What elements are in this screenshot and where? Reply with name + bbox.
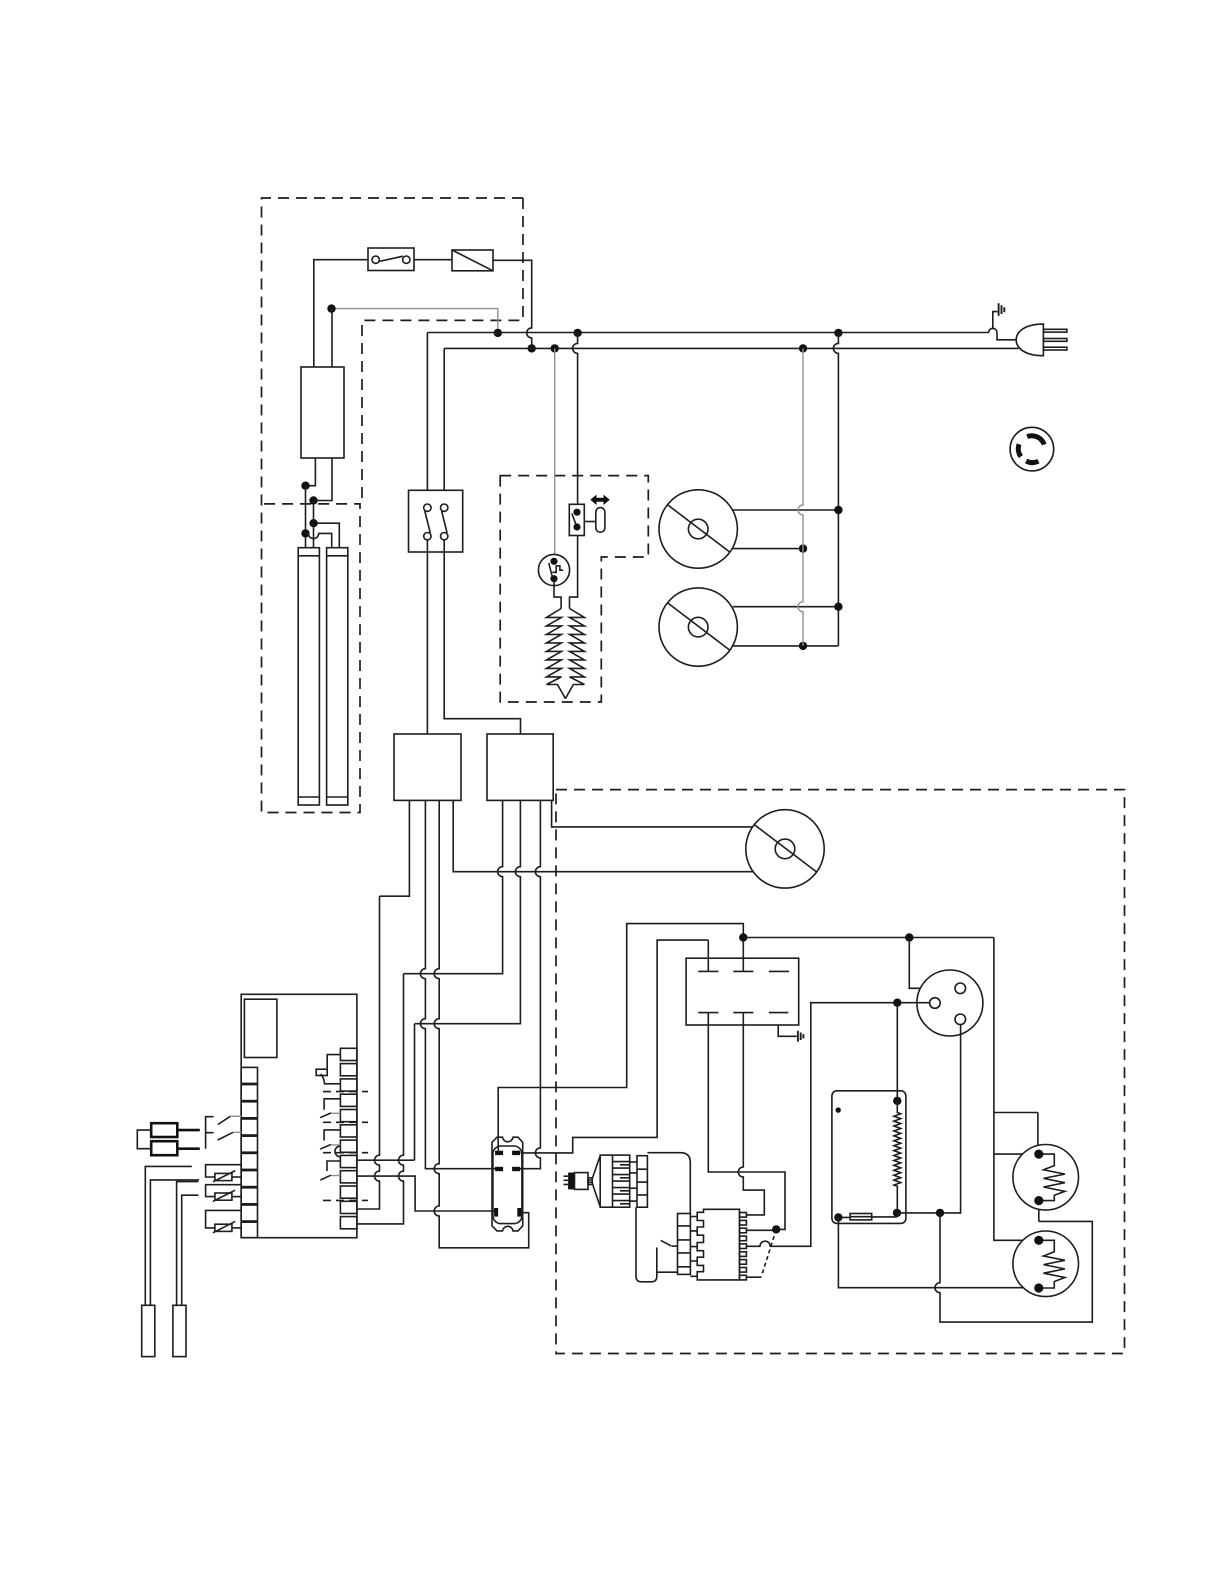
wire: stat bottom to heater right stub <box>570 536 578 609</box>
wire: timer feeder from motor lead to line L1 (gray) <box>332 309 498 333</box>
lamp 2 <box>1013 1231 1079 1297</box>
wire: terminal T2 stem up to junction <box>742 938 744 959</box>
node: coil top <box>893 1097 901 1105</box>
connector pin r1-left <box>495 1151 503 1155</box>
wire: box2 lead4 down, right to fan M3 upper lead <box>552 800 753 827</box>
dashed enclosure: machine compartment (lower right) <box>556 790 1125 1354</box>
wire: terminal T1 stem up <box>707 940 709 958</box>
board inner rectangle <box>244 999 277 1057</box>
wire: down to junction, then to right heater tube <box>314 501 340 548</box>
defrost control PCB <box>832 1091 906 1224</box>
fuse on PCB <box>838 1214 897 1220</box>
wire: box1 lead2 down then right to connector row2-left (V4) <box>420 800 495 1168</box>
connector pin r1-right <box>512 1151 520 1155</box>
node: coil bottom <box>893 1209 901 1217</box>
wire: strip-PTC ticks <box>690 1217 697 1277</box>
harness connector body <box>492 1137 523 1231</box>
door switch arm 1 <box>218 1116 230 1124</box>
wire: long run from cap T1 down, jogs, out to connector row1-right <box>521 940 709 1153</box>
actuator capsule beside switch <box>584 508 605 533</box>
node: compressor left pin branch <box>893 999 901 1007</box>
node: junction F1 wire / N1 <box>528 344 536 352</box>
overload 4-segment strip <box>678 1214 691 1275</box>
varistor R1 <box>206 1165 242 1182</box>
wire: plug1 lead (bold) <box>177 1129 200 1132</box>
relay contact glyph C on board <box>320 1130 340 1157</box>
plug connector 2 (bold) <box>151 1141 177 1155</box>
plug connector 1 (bold) <box>151 1123 177 1137</box>
fan motor M1 <box>659 490 737 568</box>
wire: branch down to relay coil <box>896 1003 898 1101</box>
connector pin r2-left <box>495 1167 503 1171</box>
temperature probe 2 <box>173 1305 186 1356</box>
lamp 1 <box>1013 1145 1079 1211</box>
start relay movable arm (dashed) <box>761 1229 776 1276</box>
wire: cap B1 stem down, right, down to start-relay node <box>708 1025 785 1229</box>
wire: N1 left end down to DP switch <box>443 348 445 490</box>
wire: M1 lower lead <box>733 548 803 550</box>
twist-lock receptacle symbol <box>1010 427 1054 471</box>
control board outline <box>241 994 357 1237</box>
sensor connector strip <box>637 1156 647 1208</box>
wire: F1 right, down with hop over line L1, to junction on line N1 <box>493 260 532 348</box>
wire: probe2 lead a <box>177 1182 199 1306</box>
wire: loop from cap T2 junction left-down to connector feed <box>498 924 743 1151</box>
double-pole switch <box>409 490 463 552</box>
node: N1/motor-drop junction <box>799 344 807 352</box>
wire: M2 upper lead with hop <box>733 606 839 608</box>
plug prong 1 <box>1043 329 1067 332</box>
wire: M2 lower lead <box>733 645 839 647</box>
wire: S1 to F1 <box>414 259 452 261</box>
connector pin r3-right <box>517 1208 521 1217</box>
wire: board pad row A with hops to V3 <box>358 1159 415 1161</box>
wire: box2 lead1 down, left with hops, down (V2) to board pad <box>358 800 503 1224</box>
board right pads <box>340 1048 357 1228</box>
node: PCB index dot <box>836 1107 841 1112</box>
defrost limit switch <box>569 504 584 535</box>
wire: down to left heater tube <box>305 486 307 548</box>
node: bottom loop junction <box>936 1209 944 1217</box>
wire: down to compressor top pin <box>909 938 955 989</box>
wire: timer bottom-right lead <box>314 458 333 501</box>
node: lead elbow A <box>301 482 309 490</box>
temperature sensor probe (black body with cone) <box>564 1156 601 1207</box>
PTC right pins <box>740 1213 747 1280</box>
wire: coil bottom row right, up to compressor bottom pin <box>897 1025 961 1213</box>
door switch arm 2 <box>218 1132 234 1140</box>
double arrow glyph <box>590 495 609 505</box>
dashed enclosure: defrost heater/thermostat area <box>500 476 648 702</box>
ground symbol at cap box <box>798 1031 804 1042</box>
wire: run from PTC row5 up to compressor left pin <box>747 1003 930 1247</box>
relay contact glyph B on board <box>320 1099 340 1118</box>
connector pin r2-right <box>512 1167 520 1171</box>
wire: vertical from L1 with hop over N1 down to M2 <box>833 333 838 646</box>
relay coil on PCB (tight zigzag) <box>894 1101 901 1213</box>
plug prong 2 <box>1043 339 1067 342</box>
wire: sensor ticks <box>630 1162 637 1201</box>
defrost heater element (fir-tree zigzag with arrow tip) <box>547 609 585 699</box>
wire: crossover with hop to right tube second lead <box>306 533 332 547</box>
wire: box2 lead2 down, left with hops, down (V3) to board pad row <box>415 800 521 1160</box>
wire: PCB junction down, right with hop, to lamp2 bottom <box>838 1217 1038 1287</box>
defrost heater tube 1 <box>298 548 319 805</box>
wire: sensor strip top to overload strip <box>647 1153 690 1214</box>
wire: PTC row9 to arm end <box>747 1276 762 1278</box>
wire: timer bottom-left lead <box>306 458 316 486</box>
node: junction C <box>309 519 317 527</box>
wire: lamp1 bottom lead down to loop <box>1038 1201 1040 1222</box>
defrost bimetal thermostat (circle) <box>538 554 569 585</box>
wire: bimetal feed (gray drop from N1) <box>554 348 556 561</box>
node: PCB bottom-left junction <box>834 1213 842 1221</box>
node: M2 lower lead junction <box>799 642 807 650</box>
wire: junction row to compressor area <box>743 937 994 939</box>
compressor (3-pin) <box>917 970 983 1036</box>
node: L1/defrost-stat junction <box>573 329 581 337</box>
wire: cap B2 stem down with hop, jog to PTC pin row1 <box>738 1025 764 1215</box>
node: start relay contact <box>772 1225 780 1233</box>
node: feeder junction on L1 <box>494 329 502 337</box>
wire: bimetal bottom to heater left stub <box>554 579 561 609</box>
node: junction D <box>301 529 309 537</box>
node: feeder start <box>327 304 335 312</box>
wire: line L1 (upper supply) with ground bump, jog into plug <box>427 328 1018 340</box>
wire: gray vertical from N1 to motor leads <box>798 348 803 646</box>
sensor ribbed body <box>600 1155 630 1207</box>
wire: plug2 lead (bold) <box>177 1147 200 1150</box>
wire: box1 lead3 down, around bottom, up into connector row3-right (V5) <box>434 800 529 1247</box>
wire: branch to lamp1 top <box>994 1113 1039 1155</box>
node: L1/motor-drop junction <box>834 329 842 337</box>
overload bypass switch <box>657 1240 678 1272</box>
dashed separator rows at right pads <box>323 1092 368 1201</box>
wire: pole1 down to relay box 1 <box>426 540 428 734</box>
wire: line N1 (lower supply) with hop over defrost stat drop <box>444 347 1018 349</box>
wire: sensor drop (gray) with rounded corner to bypass wire <box>636 1207 657 1282</box>
wire: U-link left of plugs <box>137 1130 151 1149</box>
wire: junction down with hop, bottom loop right and up to lamp1 bottom <box>935 1213 1092 1322</box>
defrost heater tube 2 <box>327 548 348 805</box>
wire: board pad row B with hops, down, right to connector row3-left <box>358 1176 495 1211</box>
wire: box1 lead4 right to fan M3 (lower lead) with hops <box>453 800 753 871</box>
ground symbol at power cord <box>993 303 1005 329</box>
node: N1/bimetal junction <box>551 344 559 352</box>
wire: pole2 down, jog right into relay box 2 <box>444 540 520 734</box>
wire: L1 left end down to DP switch <box>426 333 428 491</box>
wire: box2 lead3 down with hop over conn wire, left into connector row2-right (V6) <box>514 800 540 1168</box>
wire: box1 lead1 down, left, down to board pad (V1) <box>358 800 410 1209</box>
node: junction M2 upper <box>834 603 842 611</box>
node: compressor feed junction <box>905 933 913 941</box>
varistor R3 <box>206 1210 242 1232</box>
run capacitor / terminal box <box>686 958 799 1025</box>
wire: PTC row3 to start-relay node <box>747 1229 777 1231</box>
wire: feed from junction row down the right side <box>994 938 1039 1241</box>
wire: probe2 lead b <box>182 1195 199 1305</box>
wire: timer right lead up to feeder <box>331 309 333 367</box>
wire: switch feed down to timer motor <box>314 260 368 367</box>
node: junction M1 upper <box>834 506 842 514</box>
wire: probe1 lead b <box>150 1180 199 1305</box>
node: M1 lower lead junction <box>799 544 807 552</box>
PTC start device body (castellated left edge) <box>697 1209 739 1280</box>
relay contact glyph D on board <box>320 1161 340 1180</box>
door switch bracket <box>206 1117 214 1149</box>
wire: M1 upper lead with hop <box>733 509 839 511</box>
wire: probe1 lead a <box>145 1166 192 1305</box>
dashed enclosure: timer/control compartment (top-left) <box>262 198 524 813</box>
node: lead elbow B <box>309 496 317 504</box>
fan motor M2 <box>659 588 737 666</box>
thermal fuse F1 (box with diagonal) <box>452 250 493 271</box>
board left pads <box>241 1067 257 1237</box>
plug prong 3 <box>1043 347 1067 350</box>
defrost timer body (tall rectangle) <box>301 367 344 458</box>
relay contact glyph A on board <box>316 1055 340 1084</box>
temperature probe 1 <box>142 1305 155 1356</box>
fan motor M3 (condenser fan) <box>746 810 824 888</box>
switch S1 (door/defrost switch) <box>368 248 414 271</box>
power cord plug body <box>1016 324 1043 356</box>
relay box 2 <box>487 734 553 800</box>
relay box 1 <box>394 734 461 800</box>
varistor R2 <box>206 1185 242 1202</box>
connector pin r3-left <box>494 1208 498 1217</box>
wire: cap box B3 stem to chassis ground <box>778 1025 797 1036</box>
wire: drop from L1 to defrost stat switch <box>573 333 578 504</box>
node: cap T2 junction <box>739 933 747 941</box>
